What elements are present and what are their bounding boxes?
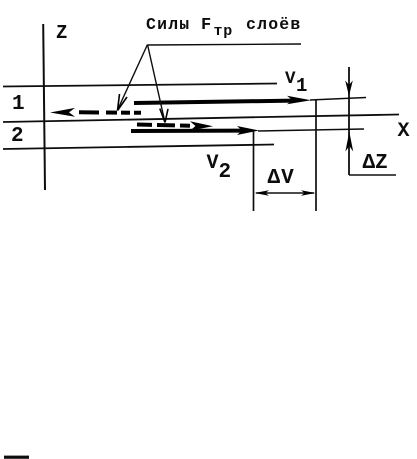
svg-text:слоёв: слоёв [246,15,302,34]
svg-text:2: 2 [219,161,232,184]
svg-text:ΔZ: ΔZ [363,152,388,175]
svg-text:Силы: Силы [146,15,190,34]
svg-text:X: X [398,120,410,143]
svg-text:2: 2 [11,125,24,148]
svg-text:V: V [207,152,219,175]
svg-text:1: 1 [12,93,25,116]
svg-text:F: F [201,16,211,35]
svg-text:Z: Z [56,22,67,44]
svg-text:V: V [285,69,296,89]
svg-text:тр: тр [214,23,234,40]
svg-text:ΔV: ΔV [268,167,295,190]
svg-text:1: 1 [296,75,307,97]
